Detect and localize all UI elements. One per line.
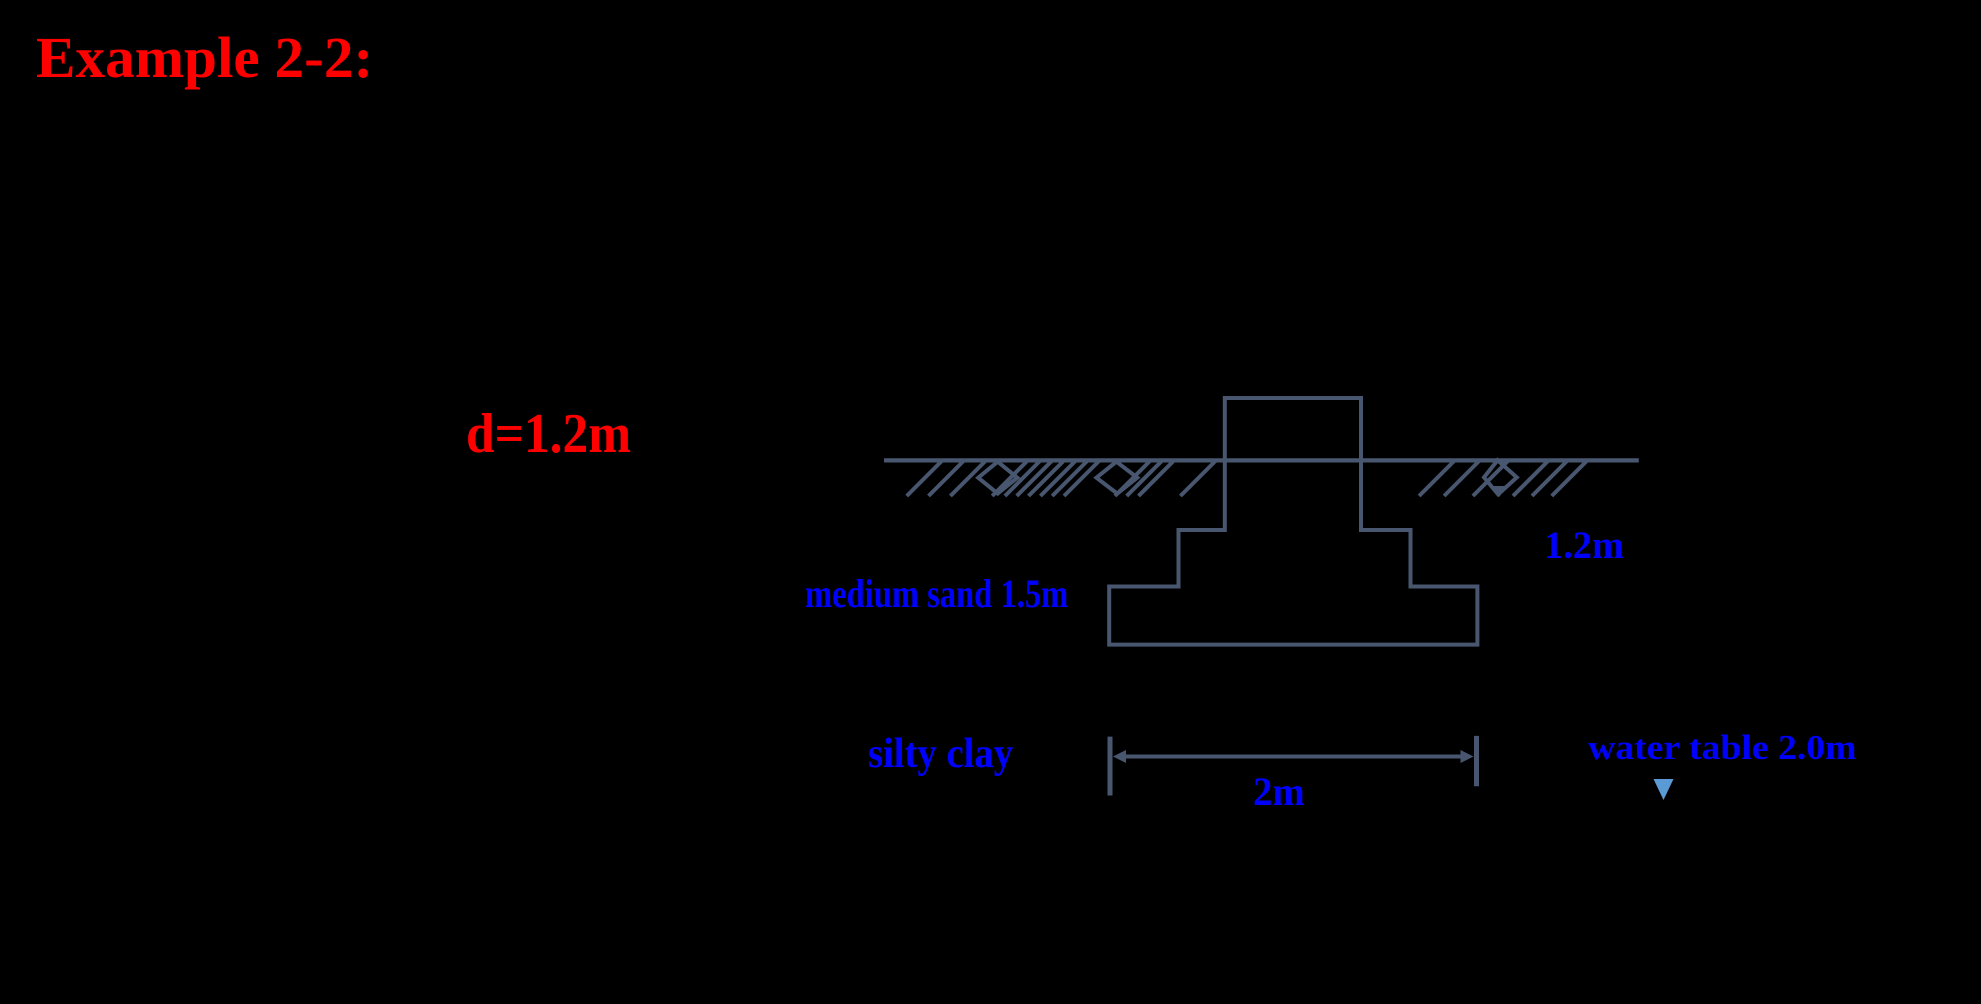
hatch diamond 3 xyxy=(1484,460,1517,494)
small down arrow at right diamond xyxy=(1494,486,1506,497)
dim line xyxy=(1122,755,1465,759)
hatch line xyxy=(1180,460,1216,496)
hatch line xyxy=(1017,460,1053,496)
hatch line xyxy=(1419,460,1455,496)
label medium sand 1.5m xyxy=(805,574,1068,614)
hatch line xyxy=(1513,460,1549,496)
hatch line xyxy=(1444,460,1480,496)
hatch line xyxy=(1115,460,1151,496)
right tick xyxy=(1474,736,1479,786)
right hatch group xyxy=(1419,460,1588,496)
label 1.2m xyxy=(1544,526,1624,565)
hatch diamond 2 xyxy=(1096,462,1137,494)
left arrowhead xyxy=(1113,750,1126,763)
hatch line xyxy=(1029,460,1065,496)
dimension line 2m with arrows xyxy=(1110,736,1477,796)
left hatch group xyxy=(907,460,1217,496)
hatch line xyxy=(1040,460,1076,496)
water table triangle xyxy=(1654,779,1674,800)
hatch line xyxy=(1052,460,1088,496)
label d=1.2m xyxy=(466,406,631,462)
footing and column outline xyxy=(1109,398,1477,645)
hatch line xyxy=(929,460,965,496)
hatch line xyxy=(907,460,943,496)
right arrowhead xyxy=(1461,750,1474,763)
hatch line xyxy=(1127,460,1163,496)
hatch line xyxy=(992,460,1028,496)
hatch line xyxy=(1005,460,1041,496)
left tick xyxy=(1108,737,1113,796)
title "Example 2-2:" xyxy=(36,29,373,87)
hatch diamond 1 xyxy=(978,462,1017,494)
hatch line xyxy=(1139,460,1175,496)
hatch line xyxy=(1473,460,1509,496)
label silty clay xyxy=(868,733,1013,775)
hatch line xyxy=(1552,460,1588,496)
hatch line xyxy=(950,460,986,496)
label water table 2.0m xyxy=(1588,730,1857,765)
hatch line xyxy=(1532,460,1568,496)
hatch line xyxy=(1064,460,1100,496)
label 2m xyxy=(1253,772,1305,813)
ground line xyxy=(884,458,1639,462)
